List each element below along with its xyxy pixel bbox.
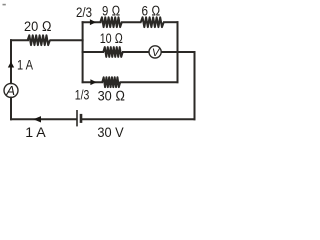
resistor 10Ω (zigzag) [103,47,122,57]
wire: from voltmeter right to outer right vertical [162,51,195,53]
wire: from 20Ω resistor right to left bus node [50,39,82,41]
current arrow 1/3 A on bottom branch (points right) [90,79,96,85]
wire: left vertical upper segment (corner down to ammeter) [10,40,12,83]
svg-text:9 Ω: 9 Ω [102,4,120,20]
current arrow 1 A on bottom wire (points left) [33,116,41,122]
wire: bottom branch lead from bus to 30Ω resistor [83,81,102,83]
current arrow 1 A on left wire (points up) [8,62,14,68]
wire: middle branch lead from bus to 10Ω resistor [83,51,103,53]
svg-text:10 Ω: 10 Ω [100,31,123,47]
wire: outer right vertical from middle branch down to bottom wire [194,52,196,119]
wire: top branch lead from bus to 9Ω resistor [83,21,101,23]
svg-text:V: V [152,47,161,59]
svg-text:20 Ω: 20 Ω [24,19,52,35]
svg-text:A: A [5,83,15,98]
svg-text:6 Ω: 6 Ω [142,3,161,19]
battery 30V long plate (positive) [76,110,78,126]
current arrow 2/3 A on top branch (points right) [90,19,96,25]
battery 30V short plate (negative) [80,114,83,123]
wire: top-left horizontal from left corner to 20Ω resistor [11,39,28,41]
svg-text:2/3: 2/3 [76,5,92,21]
wire: left bus vertical (node joining three parallel branches) [82,22,84,82]
wire: left vertical lower segment (ammeter down to bottom corner) [10,98,12,120]
voltmeter V circle [149,46,161,58]
wire: bottom horizontal from battery to right corner [82,118,195,120]
resistor 20Ω (zigzag) [28,35,50,45]
wire: bottom branch from 30Ω to inner right vertical [121,81,178,83]
svg-text:30 V: 30 V [97,125,124,140]
wire: between 9Ω and 6Ω resistors [122,21,141,23]
svg-text:1 A: 1 A [17,58,33,74]
resistor 6Ω (zigzag) [141,17,164,27]
ammeter A circle [4,83,18,97]
svg-text:1/3: 1/3 [75,88,90,104]
resistor 30Ω (zigzag) [102,77,120,87]
wire: inner right vertical joining top and bottom branches [177,22,179,82]
wire: from 10Ω resistor to voltmeter [123,51,149,53]
stray mark top-left [3,4,6,6]
wire: top branch from 6Ω to inner right vertical [164,21,178,23]
svg-text:1 A: 1 A [25,125,46,140]
wire: bottom horizontal from left corner to battery [11,118,76,120]
svg-text:30 Ω: 30 Ω [98,89,126,105]
resistor 9Ω (zigzag) [100,17,122,27]
